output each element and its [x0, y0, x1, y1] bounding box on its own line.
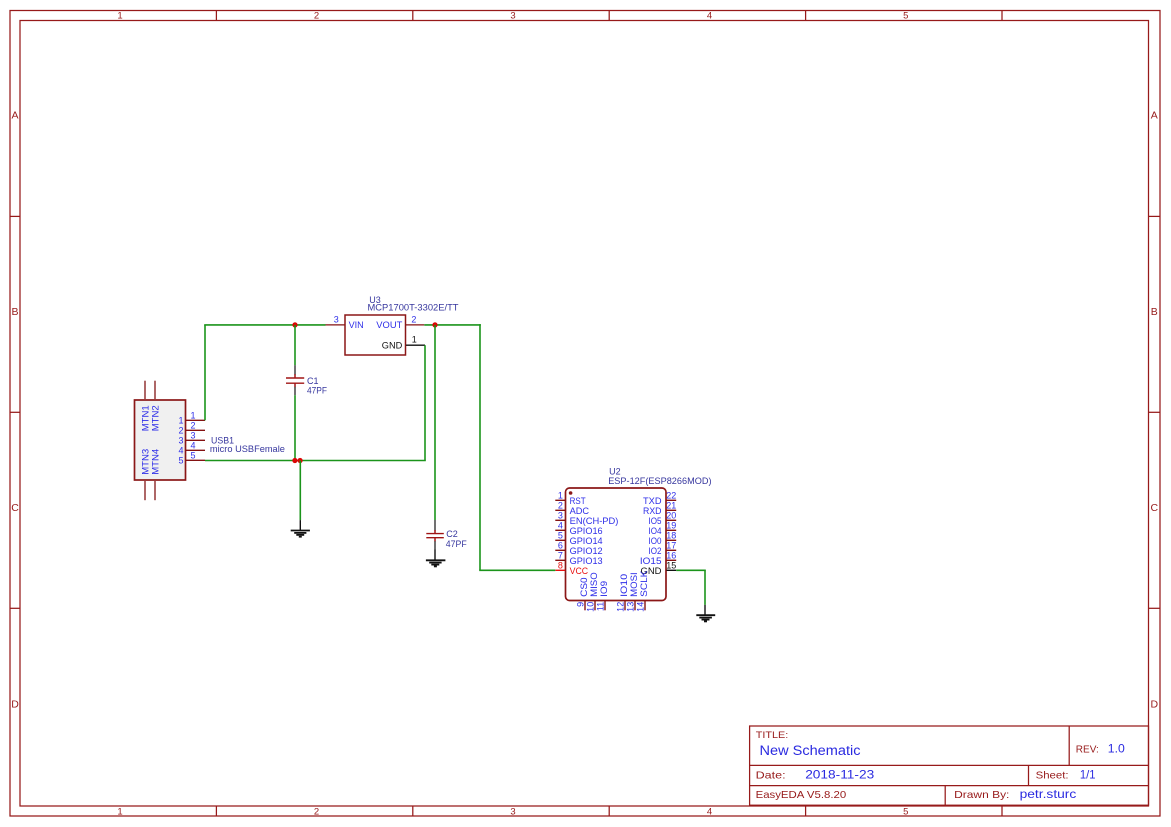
svg-text:1: 1	[412, 335, 417, 345]
wire C1 bottom to GND rail	[294, 395, 296, 460]
svg-text:IO10: IO10	[619, 574, 629, 597]
U2 pin 4 GPIO16	[555, 521, 602, 536]
U2 pin 10 MISO	[586, 572, 599, 612]
svg-text:GND: GND	[382, 340, 403, 350]
svg-text:GPIO16: GPIO16	[570, 526, 603, 536]
svg-text:16: 16	[666, 551, 676, 561]
svg-text:VOUT: VOUT	[376, 320, 403, 330]
svg-text:Drawn By:: Drawn By:	[954, 789, 1009, 801]
ground below C2	[426, 550, 446, 567]
USB1 pin MTN1	[140, 381, 150, 432]
svg-text:A: A	[1151, 110, 1158, 122]
capacitor C1	[286, 365, 304, 395]
svg-text:MTN4: MTN4	[150, 449, 160, 475]
label C2 value 47PF	[446, 539, 467, 549]
svg-text:2: 2	[558, 501, 563, 511]
USB1 pin MTN3	[140, 449, 150, 500]
svg-text:B: B	[1151, 306, 1158, 318]
svg-text:18: 18	[666, 531, 676, 541]
U2 pin 11 IO9	[596, 581, 609, 611]
U2 pin 18 IO0	[649, 531, 677, 546]
U2 pin 9 CS0	[576, 577, 589, 610]
svg-text:EN(CH-PD): EN(CH-PD)	[570, 516, 619, 526]
svg-text:RST: RST	[570, 496, 586, 506]
regulator U3 body	[345, 315, 406, 355]
svg-text:1: 1	[178, 415, 183, 425]
svg-text:1: 1	[191, 411, 196, 421]
wire U3 GND down	[424, 345, 426, 460]
junction at C1 top	[292, 322, 297, 327]
junction at VOUT / C2 branch	[432, 322, 437, 327]
wire GND rail horizontal	[205, 460, 426, 462]
svg-text:3: 3	[510, 806, 515, 817]
svg-text:5: 5	[191, 451, 196, 461]
wire to U2 VCC pin	[479, 569, 555, 571]
svg-text:5: 5	[903, 806, 908, 817]
U2 pin 6 GPIO12	[555, 541, 602, 556]
svg-text:petr.sturc: petr.sturc	[1020, 787, 1077, 801]
svg-text:4: 4	[707, 11, 712, 22]
svg-text:1: 1	[117, 806, 122, 817]
wire C1 top branch	[294, 325, 296, 365]
wire C2 branch vertical	[434, 325, 436, 520]
U2 pin 5 GPIO14	[555, 531, 602, 546]
capacitor C2	[426, 520, 444, 550]
wire U2 GND to ground	[676, 570, 706, 605]
svg-text:MTN2: MTN2	[150, 405, 160, 431]
svg-text:47PF: 47PF	[446, 539, 467, 549]
svg-text:C1: C1	[307, 376, 319, 386]
svg-text:D: D	[11, 699, 19, 711]
U2 pin 3 EN(CH-PD)	[555, 511, 618, 526]
svg-text:7: 7	[558, 551, 563, 561]
svg-text:6: 6	[558, 541, 563, 551]
connector USB1 body	[135, 400, 186, 480]
U2 pin 7 GPIO13	[555, 551, 602, 566]
U2 pin 13 MOSI	[626, 572, 639, 612]
svg-text:15: 15	[666, 561, 676, 571]
U2 pin 1 RST	[555, 491, 586, 506]
label C2	[446, 529, 458, 539]
svg-text:SCLK: SCLK	[639, 571, 649, 597]
U2 pin 2 ADC	[555, 501, 589, 516]
wire VIN rail horizontal	[204, 324, 325, 326]
svg-text:GPIO13: GPIO13	[570, 556, 603, 566]
wire USB1 pin1 riser to VIN rail	[204, 325, 206, 420]
svg-text:1: 1	[117, 11, 122, 22]
svg-text:4: 4	[707, 806, 712, 817]
USB1 pin 4	[178, 441, 205, 456]
U2 pin 22 TXD	[643, 491, 676, 506]
USB1 pin 1	[178, 411, 205, 426]
svg-text:5: 5	[178, 455, 183, 465]
svg-text:C2: C2	[446, 529, 458, 539]
svg-text:8: 8	[558, 561, 563, 571]
svg-text:3: 3	[178, 435, 183, 445]
svg-text:IO15: IO15	[640, 556, 662, 566]
svg-text:3: 3	[191, 431, 196, 441]
svg-text:11: 11	[596, 602, 606, 611]
svg-text:IO4: IO4	[649, 526, 662, 536]
svg-text:EasyEDA V5.8.20: EasyEDA V5.8.20	[756, 789, 847, 801]
svg-text:ADC: ADC	[570, 506, 590, 516]
U2 pin 19 IO4	[649, 521, 677, 536]
wire ground branch below GND rail	[299, 461, 301, 521]
svg-text:14: 14	[636, 602, 646, 612]
label USB1	[211, 436, 234, 447]
label C1 value 47PF	[307, 385, 327, 395]
svg-text:TITLE:: TITLE:	[756, 730, 789, 741]
junction GND rail / C1	[292, 458, 297, 463]
svg-text:C: C	[1151, 502, 1159, 514]
svg-text:2: 2	[178, 425, 183, 435]
svg-text:VIN: VIN	[349, 320, 364, 330]
U2 pin 8 VCC	[555, 561, 588, 576]
ground near USB1	[291, 520, 310, 537]
svg-text:9: 9	[576, 602, 586, 607]
junction GND rail / ground symbol	[298, 458, 303, 463]
label U2	[609, 467, 621, 477]
svg-text:IO5: IO5	[649, 516, 662, 526]
svg-text:MTN1: MTN1	[140, 405, 150, 431]
svg-text:2: 2	[314, 11, 319, 22]
svg-text:21: 21	[666, 501, 676, 511]
svg-text:2: 2	[411, 314, 416, 324]
svg-text:17: 17	[666, 541, 676, 551]
svg-text:IO9: IO9	[599, 581, 609, 597]
svg-text:20: 20	[666, 511, 676, 521]
svg-text:VCC: VCC	[570, 566, 589, 576]
U2 pin 17 IO2	[649, 541, 677, 556]
U2 pin 15 GND	[641, 561, 677, 576]
label micro USBFemale	[210, 444, 285, 455]
svg-text:1: 1	[558, 491, 563, 501]
svg-text:micro USBFemale: micro USBFemale	[210, 444, 285, 455]
svg-text:CS0: CS0	[579, 577, 589, 597]
USB1 pin MTN2	[150, 381, 160, 432]
U2 pin 16 IO15	[640, 551, 676, 566]
svg-text:GPIO14: GPIO14	[570, 536, 603, 546]
svg-text:1/1: 1/1	[1080, 768, 1096, 782]
svg-text:2: 2	[314, 806, 319, 817]
svg-text:A: A	[11, 110, 18, 122]
label C1	[307, 376, 319, 386]
USB1 pin MTN4	[150, 449, 160, 500]
wire VOUT horizontal	[424, 324, 481, 326]
svg-text:3: 3	[510, 11, 515, 22]
U2 pin 12 IO10	[616, 574, 629, 612]
svg-text:2018-11-23: 2018-11-23	[805, 768, 874, 782]
USB1 pin 3	[178, 431, 205, 446]
svg-text:MTN3: MTN3	[140, 449, 150, 475]
U2 pin 14 SCLK	[636, 571, 649, 612]
title block	[750, 726, 1149, 805]
svg-text:5: 5	[558, 531, 563, 541]
svg-text:MCP1700T-3302E/TT: MCP1700T-3302E/TT	[368, 303, 460, 313]
svg-text:3: 3	[334, 314, 339, 324]
svg-text:3: 3	[558, 511, 563, 521]
svg-text:12: 12	[616, 602, 626, 612]
svg-text:47PF: 47PF	[307, 385, 327, 395]
U2 pin 20 IO5	[649, 511, 677, 526]
svg-text:RXD: RXD	[643, 506, 662, 516]
USB1 pin 2	[178, 421, 205, 436]
svg-text:TXD: TXD	[643, 496, 662, 506]
IC U2 body	[566, 488, 667, 601]
svg-text:C: C	[11, 502, 19, 514]
svg-text:19: 19	[666, 521, 676, 531]
svg-text:13: 13	[626, 602, 636, 612]
svg-text:10: 10	[586, 602, 596, 612]
svg-text:B: B	[11, 306, 18, 318]
wire VOUT down to VCC level	[479, 324, 481, 570]
svg-text:22: 22	[666, 491, 676, 501]
svg-text:2: 2	[191, 421, 196, 431]
svg-text:1.0: 1.0	[1108, 741, 1125, 755]
svg-text:ESP-12F(ESP8266MOD): ESP-12F(ESP8266MOD)	[608, 476, 711, 486]
svg-text:D: D	[1151, 699, 1159, 711]
label U3	[369, 295, 381, 305]
U3 pin 1 GND	[382, 335, 425, 351]
svg-text:REV:: REV:	[1076, 743, 1099, 755]
U3 pin 2 VOUT	[376, 314, 424, 330]
label ESP-12F(ESP8266MOD)	[608, 476, 711, 486]
ground at U2 GND	[696, 605, 715, 622]
svg-text:Date:: Date:	[756, 770, 786, 782]
U2 pin 21 RXD	[643, 501, 676, 516]
U3 pin 3 VIN	[326, 314, 364, 330]
svg-text:IO0: IO0	[649, 536, 662, 546]
svg-text:4: 4	[558, 521, 563, 531]
svg-text:New Schematic: New Schematic	[760, 743, 861, 758]
svg-text:4: 4	[191, 441, 196, 451]
svg-text:4: 4	[178, 445, 183, 455]
svg-text:MOSI: MOSI	[629, 572, 639, 597]
label MCP1700T-3302E/TT	[368, 303, 460, 313]
svg-text:5: 5	[903, 11, 908, 22]
svg-text:MISO: MISO	[589, 572, 599, 597]
svg-text:Sheet:: Sheet:	[1036, 770, 1069, 782]
USB1 pin 5	[178, 451, 205, 466]
svg-text:IO2: IO2	[649, 546, 662, 556]
svg-text:GPIO12: GPIO12	[570, 546, 603, 556]
